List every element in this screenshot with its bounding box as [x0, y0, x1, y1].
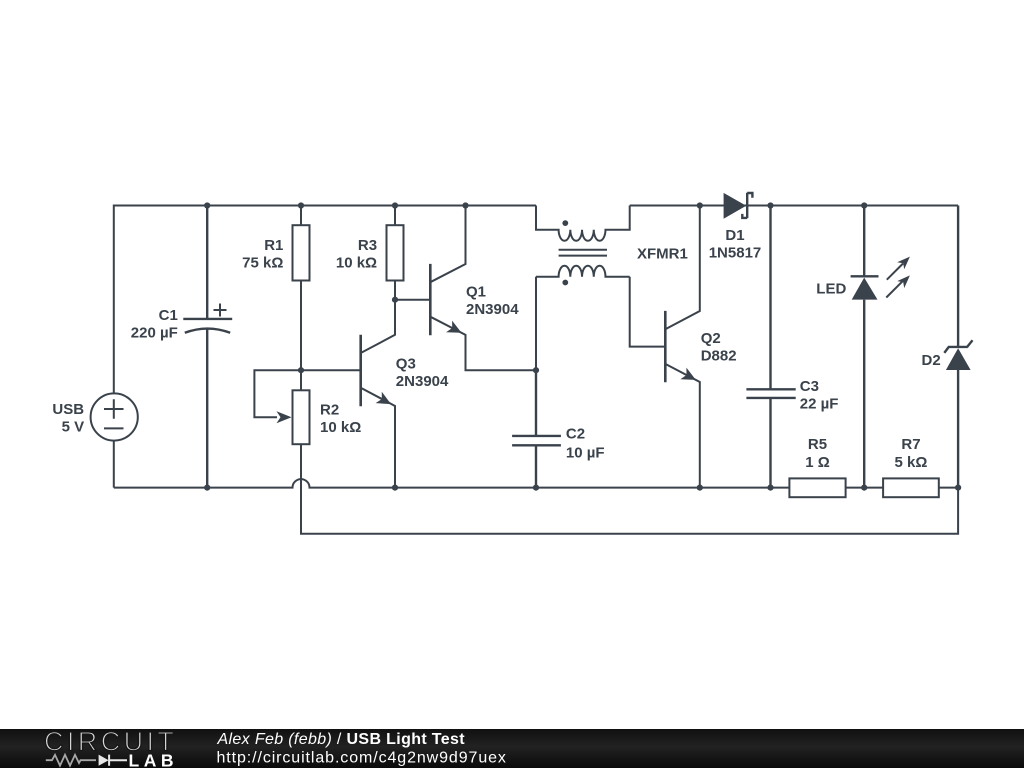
svg-text:Q1: Q1	[466, 283, 486, 300]
diode D1 1N5817 schottky	[724, 193, 747, 219]
transistor Q3	[359, 335, 362, 406]
junction R1-R2 / Q3 base / wiper	[298, 367, 304, 373]
potentiometer R2 wiper	[254, 370, 301, 417]
junction Q1 emitter / secondary / C2 top	[533, 367, 539, 373]
svg-text:LED: LED	[816, 281, 846, 298]
junction R1 top rail	[298, 202, 304, 208]
resistor R3	[394, 206, 396, 300]
svg-text:5 V: 5 V	[62, 419, 85, 436]
svg-text:220 µF: 220 µF	[131, 325, 178, 342]
svg-text:D1: D1	[725, 227, 744, 244]
junction C3 bottom rail	[767, 485, 773, 491]
LED emission arrow 2	[886, 281, 902, 297]
junction C1 top rail	[204, 202, 210, 208]
junction R7 right / feedback vertical	[955, 485, 961, 491]
junction D1 cathode / C3 top	[767, 202, 773, 208]
LED emission arrow 1	[887, 264, 903, 280]
svg-text:Alex Feb (febb) / USB Light Te: Alex Feb (febb) / USB Light Test	[217, 731, 466, 748]
wire feedback net R2 bottom to right vertical	[301, 444, 958, 534]
LED D symbol	[851, 206, 879, 488]
wire secondary left lead down to node	[535, 277, 537, 371]
junction Q2 collector / D1 anode	[697, 202, 703, 208]
svg-text:75 kΩ: 75 kΩ	[242, 254, 283, 271]
svg-text:D2: D2	[922, 352, 941, 369]
junction LED bottom rail	[861, 485, 867, 491]
footer black bar	[0, 729, 1024, 768]
transistor Q1	[429, 264, 432, 335]
svg-text:Q2: Q2	[701, 330, 721, 347]
voltage source USB 5V	[91, 393, 138, 440]
svg-text:XFMR1: XFMR1	[637, 246, 688, 263]
transformer secondary phase dot	[562, 280, 568, 286]
wire bottom rail	[114, 479, 958, 488]
svg-text:2N3904: 2N3904	[466, 301, 519, 318]
transformer XFMR1 secondary winding	[536, 266, 630, 277]
capacitor C1	[183, 206, 232, 488]
svg-text:USB: USB	[52, 401, 84, 418]
CircuitLab logo resistor zigzag	[46, 755, 96, 766]
svg-text:C2: C2	[566, 426, 585, 443]
svg-text:1 Ω: 1 Ω	[805, 454, 830, 471]
wire top rail left section	[114, 206, 536, 488]
wire secondary right lead to Q2 base	[630, 277, 666, 347]
junction C1 bottom rail	[204, 485, 210, 491]
junction LED top rail	[861, 202, 867, 208]
svg-text:C1: C1	[159, 307, 178, 324]
transistor Q2	[664, 311, 667, 382]
svg-text:LAB: LAB	[129, 751, 178, 768]
svg-text:R5: R5	[808, 436, 827, 453]
svg-text:R2: R2	[320, 402, 339, 419]
svg-text:R7: R7	[901, 436, 920, 453]
junction Q1 collector top rail	[462, 202, 468, 208]
transformer XFMR1 core lines	[559, 250, 607, 256]
svg-text:C3: C3	[800, 378, 819, 395]
svg-text:10 kΩ: 10 kΩ	[336, 254, 377, 271]
junction Q2 emitter bottom rail	[697, 485, 703, 491]
svg-text:R1: R1	[264, 237, 283, 254]
junction Q3 emitter bottom rail	[392, 485, 398, 491]
junction C2 bottom rail	[533, 485, 539, 491]
svg-text:10 µF: 10 µF	[566, 445, 605, 462]
svg-text:1N5817: 1N5817	[709, 245, 762, 262]
wire top rail right section	[630, 205, 958, 207]
junction R3 top rail	[392, 202, 398, 208]
svg-text:http://circuitlab.com/c4g2nw9d: http://circuitlab.com/c4g2nw9d97uex	[217, 749, 507, 766]
svg-text:5 kΩ: 5 kΩ	[895, 454, 928, 471]
svg-text:2N3904: 2N3904	[396, 373, 449, 390]
resistor R1	[300, 206, 302, 391]
resistor R7	[883, 478, 939, 497]
resistor R5	[789, 478, 845, 497]
svg-text:10 kΩ: 10 kΩ	[320, 419, 361, 436]
svg-text:D882: D882	[701, 348, 737, 365]
junction R3 bottom / Q1 base / Q3 collector	[392, 297, 398, 303]
zener diode D2	[944, 206, 972, 488]
transformer primary phase dot	[562, 220, 568, 226]
svg-text:R3: R3	[358, 237, 377, 254]
capacitor C3	[746, 206, 795, 488]
svg-text:Q3: Q3	[396, 355, 416, 372]
svg-text:22 µF: 22 µF	[800, 396, 839, 413]
CircuitLab logo diode	[99, 755, 109, 766]
potentiometer R2	[293, 390, 310, 444]
transformer XFMR1 primary winding	[536, 206, 630, 241]
capacitor C2	[512, 370, 561, 487]
